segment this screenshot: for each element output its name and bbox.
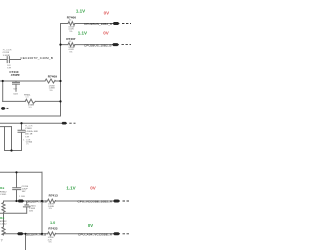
svg-text:C7413: C7413 xyxy=(3,52,10,54)
svg-text:5%: 5% xyxy=(49,242,52,244)
connector row4 xyxy=(113,232,120,235)
resistor R7411 xyxy=(25,99,35,103)
capacitor C7413 xyxy=(0,57,21,63)
svg-text:R7423: R7423 xyxy=(48,227,57,231)
wire row2 xyxy=(61,44,113,46)
svg-text:1-10UF+10R: 1-10UF+10R xyxy=(25,131,38,133)
svg-text:CPU_VCCGBE_10B2_R: CPU_VCCGBE_10B2_R xyxy=(78,200,113,204)
svg-text:16V: 16V xyxy=(29,211,33,213)
svg-text:16V: 16V xyxy=(22,191,26,193)
svg-text:50V: 50V xyxy=(13,88,17,90)
svg-text:0V: 0V xyxy=(104,11,110,16)
svg-text:X7R: X7R xyxy=(7,67,12,69)
off-page connectors and dashes xyxy=(1,22,120,235)
resistor R7322 xyxy=(2,213,5,235)
connector row3 xyxy=(113,200,120,203)
voltage annotations xyxy=(0,8,93,228)
svg-text:31k: 31k xyxy=(0,186,5,190)
net labels xyxy=(20,22,112,236)
svg-text:CEC2007P_TAB_B: CEC2007P_TAB_B xyxy=(26,233,47,237)
wire vertical x25.5 bottom xyxy=(25,234,27,250)
svg-text:R7409: R7409 xyxy=(48,75,57,79)
resistor R7407 xyxy=(68,43,75,47)
svg-text:C0G: C0G xyxy=(13,94,18,96)
resistor R7312 xyxy=(2,201,5,213)
wire dashes row1 xyxy=(122,23,132,25)
svg-text:470PF: 470PF xyxy=(11,73,20,77)
svg-text:0V: 0V xyxy=(90,186,96,191)
node x42-row4 xyxy=(41,233,43,235)
wire dashes row2 xyxy=(122,44,132,46)
svg-text:5%: 5% xyxy=(29,107,32,109)
wire y172.3 xyxy=(0,171,42,173)
reference designators xyxy=(9,15,76,230)
node left-y81 xyxy=(2,80,4,82)
resistor R7413 xyxy=(48,199,56,203)
junction dots xyxy=(2,44,62,235)
svg-text:X7R: X7R xyxy=(25,136,30,138)
resistor R7423 xyxy=(48,232,56,236)
capacitor C7413 text block xyxy=(0,49,38,242)
svg-text:C1041: C1041 xyxy=(0,194,7,196)
svg-text:1%: 1% xyxy=(26,144,29,146)
wire vertical bus xyxy=(60,24,62,117)
wire row1 xyxy=(61,23,113,25)
wire y101.6 xyxy=(3,100,61,102)
wire y122.8 xyxy=(0,122,61,124)
svg-text:CPU2BUS_10B2_B: CPU2BUS_10B2_B xyxy=(84,43,112,47)
node bus-y101.6 xyxy=(59,100,61,102)
capacitor C7415 xyxy=(23,201,30,213)
svg-text:1.1V: 1.1V xyxy=(66,186,75,191)
connector blob A xyxy=(18,200,25,203)
svg-text:0V: 0V xyxy=(103,31,109,36)
node x42-row3 xyxy=(41,200,43,202)
svg-text:1.1V: 1.1V xyxy=(78,31,87,36)
svg-text:5%: 5% xyxy=(50,90,53,92)
connector y122.8 xyxy=(61,122,67,125)
wire dash left connector xyxy=(7,107,9,109)
wire dashes row4 xyxy=(123,233,130,235)
capacitor C7403 xyxy=(18,123,25,150)
connector blob B xyxy=(17,232,24,235)
svg-text:1 10B: 1 10B xyxy=(19,196,25,198)
wire U legs xyxy=(5,127,12,151)
node C7403 tap xyxy=(20,122,22,124)
svg-text:CEC2007P_TAB_B: CEC2007P_TAB_B xyxy=(26,200,47,204)
svg-text:1-10UF: 1-10UF xyxy=(3,55,11,57)
wire dashes y122.8 xyxy=(69,122,75,124)
wire vertical x42 xyxy=(41,172,43,234)
svg-text:C1042: C1042 xyxy=(0,223,7,225)
node bus-row2 xyxy=(59,44,61,46)
svg-text:16V 1R: 16V 1R xyxy=(25,134,33,136)
connector row1 xyxy=(113,22,120,25)
connector left edge y110 xyxy=(1,107,6,110)
wire dashes row3 xyxy=(123,200,130,202)
svg-text:0V: 0V xyxy=(88,223,93,228)
capacitor C7410 xyxy=(13,81,20,91)
wire rail y213.3 xyxy=(0,212,26,214)
wire y116 xyxy=(0,115,61,117)
wire row R7423 xyxy=(4,233,114,235)
node x25.5-row4 xyxy=(24,233,26,235)
wire left vertical xyxy=(2,81,4,101)
svg-text:5%: 5% xyxy=(49,208,52,210)
svg-text:CPU_A04_VCCGBE_R: CPU_A04_VCCGBE_R xyxy=(78,233,113,237)
resistor R7406 xyxy=(68,22,75,26)
small value texts xyxy=(48,20,75,244)
wire y126.6 xyxy=(0,126,12,128)
svg-text:CEC2007P_C40M_B: CEC2007P_C40M_B xyxy=(20,56,53,60)
capacitor C7414 xyxy=(13,172,21,201)
svg-text:?: ? xyxy=(1,238,3,242)
node C7414 tap xyxy=(15,171,17,173)
wire row R7413 xyxy=(4,200,114,202)
node bus-y81 xyxy=(59,80,61,82)
svg-text:1.1V: 1.1V xyxy=(76,8,85,13)
svg-text:CPU2BUS_10B2_B: CPU2BUS_10B2_B xyxy=(84,22,112,26)
node U-y150.5 xyxy=(10,149,12,151)
node C7414-row xyxy=(15,200,17,202)
wire y150.5 xyxy=(5,150,22,152)
svg-text:R7413: R7413 xyxy=(49,193,58,197)
connector row2 xyxy=(112,43,119,46)
wire y81 xyxy=(0,80,61,82)
svg-text:5%: 5% xyxy=(69,31,72,33)
svg-text:1.0: 1.0 xyxy=(50,221,55,225)
svg-text:5%: 5% xyxy=(69,51,72,53)
svg-text:31k: 31k xyxy=(0,216,5,220)
resistor R7409 xyxy=(45,79,55,83)
